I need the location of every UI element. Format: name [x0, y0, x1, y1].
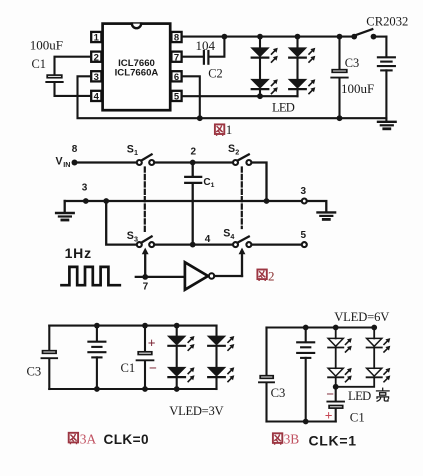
label 图3B: [273, 432, 299, 447]
wire top rail pin8: [183, 36, 354, 38]
wire C1 bottom down to S3 row: [192, 184, 194, 245]
dashed control line S2-S4: [241, 168, 243, 229]
wire pin3 to ground rail: [78, 76, 387, 118]
wire S2 right down to rail: [252, 163, 267, 202]
switch S1: [127, 144, 154, 165]
switch SW1: [351, 29, 386, 39]
LED D2 string1 bottom: [251, 58, 277, 96]
svg-text:C1: C1: [121, 361, 136, 375]
LED D10 col1 bottom 3B: [328, 348, 352, 387]
svg-text:S: S: [223, 228, 230, 240]
node junctions 3B: [303, 325, 309, 331]
node 3 terminal right: [301, 186, 307, 203]
wire S1 to node2 to S2: [154, 161, 232, 163]
svg-text:VLED=6V: VLED=6V: [334, 310, 389, 324]
capacitor C1 fig2: [185, 163, 214, 190]
wire VIN to S1: [75, 161, 137, 163]
wire bottom rail 3B: [267, 420, 336, 422]
svg-text:−: −: [149, 362, 157, 377]
svg-text:7: 7: [143, 281, 149, 292]
svg-text:7: 7: [174, 52, 179, 63]
ground fig1: [378, 122, 396, 129]
svg-text:104: 104: [196, 38, 216, 53]
LED D7 col2 top 3A: [208, 326, 234, 351]
svg-text:C2: C2: [208, 66, 222, 80]
svg-text:ICL7660A: ICL7660A: [115, 68, 159, 79]
wire pin2 to C1 top: [55, 57, 91, 74]
node junction LED1 bottom: [257, 93, 263, 99]
capacitor C2 104: [196, 38, 223, 81]
wire clock line node 7: [136, 274, 185, 292]
LED D11 col2 top 3B: [367, 328, 391, 353]
svg-text:S: S: [127, 230, 134, 242]
svg-text:3: 3: [94, 72, 99, 83]
switch S2: [228, 143, 251, 165]
node junctions 3A top: [94, 323, 100, 329]
battery fig3B: [297, 328, 314, 422]
svg-text:3: 3: [301, 186, 307, 197]
node junction C3 bottom: [337, 115, 343, 121]
svg-text:4: 4: [230, 232, 234, 241]
LED D1 string1 top: [251, 37, 277, 63]
svg-text:C: C: [203, 177, 210, 188]
svg-text:IN: IN: [63, 160, 70, 169]
LED D4 string2 bottom: [289, 58, 315, 96]
svg-text:C1: C1: [350, 411, 365, 425]
LED D12 col2 bottom 3B: [336, 348, 391, 387]
capacitor C1 100uF: [30, 37, 63, 82]
svg-text:4: 4: [94, 92, 100, 103]
node junction C2/rail: [222, 34, 228, 40]
capacitor C3 100uF: [331, 37, 374, 119]
node 4 junction: [190, 234, 211, 247]
pin 6: [171, 71, 181, 83]
switch S3: [127, 230, 154, 247]
LED D5 col1 top 3A: [168, 326, 194, 351]
svg-text:1: 1: [226, 122, 233, 137]
svg-text:1: 1: [134, 148, 138, 157]
wire bottom rail 3A: [49, 388, 216, 390]
op-amp U1 IC body ICL7660: [103, 24, 171, 111]
pin 2: [91, 52, 101, 64]
svg-text:C1: C1: [32, 57, 46, 71]
wire pin5 to LED bottoms: [183, 95, 298, 97]
pin 1: [91, 32, 101, 44]
node junction LED1 top: [257, 34, 263, 40]
node junction pin6/gnd: [197, 115, 203, 121]
svg-text:V: V: [56, 156, 63, 168]
node 5 terminal: [301, 230, 307, 247]
LED D8 col2 bottom 3A: [208, 346, 234, 389]
LED D3 string2 top: [289, 37, 315, 63]
svg-text:S: S: [228, 143, 235, 155]
wire top rail 3A: [49, 325, 216, 327]
svg-text:CLK=1: CLK=1: [309, 433, 357, 449]
capacitor C1 fig3A: [121, 326, 158, 389]
switch S4: [223, 228, 251, 248]
svg-text:C3: C3: [345, 56, 359, 70]
wire S3 row left drop: [106, 201, 136, 245]
svg-text:3A: 3A: [80, 432, 97, 447]
node junction C3 top: [337, 34, 343, 40]
pin 5: [171, 91, 181, 103]
svg-text:C3: C3: [27, 365, 42, 379]
wire pin7 to C2: [183, 56, 203, 58]
node junctions 3A bottom: [94, 386, 100, 392]
svg-text:−: −: [326, 387, 334, 402]
svg-text:2: 2: [235, 148, 239, 157]
wire arrow to S3: [142, 248, 149, 277]
wire C2 to top rail: [209, 37, 224, 57]
battery CR2032: [366, 14, 408, 121]
svg-text:3: 3: [82, 182, 88, 193]
capacitor C3 fig3A: [27, 326, 58, 389]
label 图1: [215, 122, 232, 137]
svg-text:S: S: [127, 144, 134, 156]
wire pin6 down: [183, 76, 200, 118]
svg-text:+: +: [325, 408, 333, 423]
pin 8: [171, 32, 181, 44]
svg-text:2: 2: [268, 269, 275, 284]
ground fig2 right: [318, 212, 336, 219]
svg-text:8: 8: [174, 33, 179, 44]
svg-text:CR2032: CR2032: [366, 14, 408, 28]
svg-text:5: 5: [301, 230, 307, 241]
svg-text:1: 1: [94, 33, 100, 44]
svg-text:8: 8: [72, 144, 78, 155]
svg-text:2: 2: [191, 146, 197, 157]
battery fig3A: [88, 326, 105, 389]
svg-text:CLK=0: CLK=0: [104, 432, 149, 447]
svg-text:4: 4: [205, 234, 211, 245]
wire mid rail node3: [65, 200, 302, 202]
node junction rail left: [83, 198, 89, 204]
dashed control line S1-S3: [144, 168, 146, 232]
svg-text:100uF: 100uF: [341, 81, 374, 96]
wire top rail 3B: [267, 326, 375, 328]
wire S3 to node4 to S4: [154, 243, 232, 245]
LED D6 col1 bottom 3A: [168, 346, 194, 389]
svg-text:6: 6: [174, 72, 179, 83]
wire inverter out to S4 arrow: [214, 248, 245, 276]
svg-text:100uF: 100uF: [30, 37, 63, 52]
wire to right ground: [307, 201, 326, 212]
pin 7: [171, 52, 181, 64]
LED D9 col1 top 3B: [328, 328, 352, 353]
label 图2: [257, 269, 274, 284]
svg-text:LED: LED: [272, 101, 295, 115]
label 图3A: [69, 432, 97, 447]
svg-text:1: 1: [211, 182, 215, 189]
svg-text:VLED=3V: VLED=3V: [169, 404, 223, 418]
clock square wave: [62, 267, 120, 285]
svg-text:1Hz: 1Hz: [65, 245, 92, 261]
node VIN terminal: [56, 144, 78, 169]
svg-text:LED: LED: [348, 389, 371, 403]
wire S4 to node 5 terminal: [252, 243, 302, 245]
node junction LED2 top: [295, 34, 301, 40]
label LED 亮: [348, 388, 389, 403]
node junction rail S3-drop: [103, 198, 109, 204]
svg-text:3B: 3B: [284, 432, 300, 447]
pin 4: [91, 91, 101, 103]
svg-text:2: 2: [94, 52, 99, 63]
svg-text:5: 5: [174, 92, 180, 103]
node 2 junction: [190, 146, 197, 165]
svg-text:+: +: [148, 335, 156, 350]
inverter U2: [185, 262, 214, 289]
wire C1 bottom to pin4: [55, 83, 91, 96]
capacitor C1 fig3B: [325, 387, 365, 425]
node junction LED bottoms 3B: [333, 384, 339, 390]
pin 3: [91, 71, 101, 83]
capacitor C3 fig3B: [259, 328, 285, 422]
svg-text:C3: C3: [271, 386, 286, 400]
node junction rail S2-drop: [264, 198, 270, 204]
ground fig2 left: [56, 201, 74, 220]
